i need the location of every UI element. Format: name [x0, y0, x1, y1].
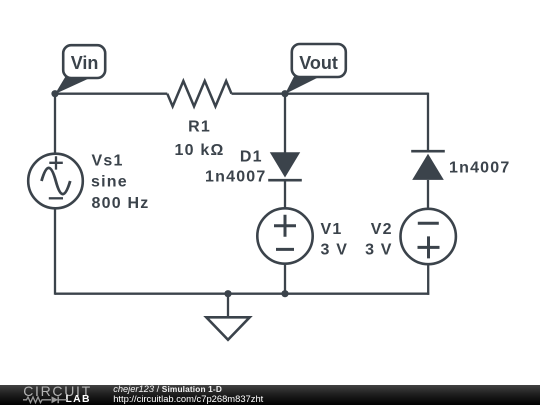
svg-text:1n4007: 1n4007	[449, 160, 510, 177]
svg-text:800 Hz: 800 Hz	[92, 195, 150, 212]
svg-text:V2: V2	[371, 221, 393, 238]
wire right branch: V2 bottom to bottom-right corner	[427, 263, 429, 295]
wire left branch: Vin node down to Vs1 top terminal	[54, 93, 56, 154]
svg-text:10 kΩ: 10 kΩ	[175, 142, 225, 159]
svg-text:R1: R1	[188, 119, 211, 136]
footer line 2: url	[113, 394, 263, 403]
junction node Vin	[51, 90, 58, 97]
svg-text:Vs1: Vs1	[92, 153, 124, 170]
svg-text:sine: sine	[91, 174, 128, 191]
svg-text:3 V: 3 V	[321, 242, 349, 259]
voltage source V1	[257, 208, 312, 263]
svg-text:1n4007: 1n4007	[205, 169, 266, 186]
diode D2	[411, 151, 445, 180]
wire middle branch: D1 cathode to V1 top	[284, 180, 286, 209]
svg-text:D1: D1	[240, 149, 263, 166]
svg-text:Vin: Vin	[71, 53, 99, 73]
wire top rail: Vin node to R1 left terminal	[55, 93, 167, 95]
wire middle branch: V1 bottom to bottom rail junction	[284, 263, 286, 294]
footer bar	[0, 385, 540, 406]
junction node Vout	[281, 90, 288, 97]
wire middle branch: Vout node to D1 anode	[284, 93, 286, 153]
svg-text:Vout: Vout	[299, 53, 338, 73]
node label Vout	[285, 44, 346, 94]
wire right branch: D2 anode to V2 top	[427, 180, 429, 210]
voltage source V2	[401, 209, 456, 264]
CircuitLab logo text	[23, 386, 92, 396]
voltage source Vs1	[28, 154, 83, 209]
footer line 1: author / title	[113, 385, 222, 394]
CircuitLab logo LAB	[66, 395, 91, 404]
wire left branch: Vs1 bottom to bottom-left corner	[54, 208, 56, 295]
svg-text:V1: V1	[321, 221, 343, 238]
wire bottom rail: left corner to ground junction	[55, 293, 228, 295]
CircuitLab logo schematic glyph	[22, 394, 72, 406]
wire right branch: corner down to D2 cathode bar	[427, 93, 429, 152]
wire top rail: Vout node to top-right corner	[285, 93, 428, 95]
junction: ground on bottom rail	[224, 290, 231, 297]
junction: V1 on bottom rail	[281, 290, 288, 297]
wire bottom rail: ground junction to V1 junction	[228, 293, 285, 295]
resistor R1	[167, 81, 231, 106]
node label Vin	[55, 45, 105, 94]
ground symbol	[206, 294, 249, 340]
wire bottom rail: V1 junction to bottom-right corner	[285, 293, 429, 295]
diode D1	[268, 152, 302, 180]
svg-text:3 V: 3 V	[365, 242, 393, 259]
wire top rail: R1 right terminal to Vout node	[232, 93, 286, 95]
